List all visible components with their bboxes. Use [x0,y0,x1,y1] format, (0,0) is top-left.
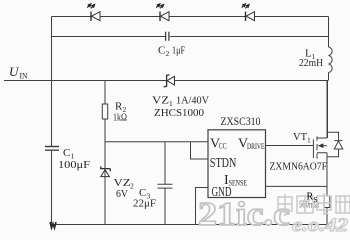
svg-text:ZXSC310: ZXSC310 [221,116,261,128]
svg-text:1kΩ: 1kΩ [113,113,127,124]
svg-text:2: 2 [166,49,170,58]
svg-text:22mH: 22mH [299,58,323,69]
svg-text:e.o.42: e.o.42 [292,215,349,234]
svg-text:1A/40V: 1A/40V [176,96,209,107]
svg-text:100μF: 100μF [58,160,90,171]
svg-text:STDN: STDN [210,156,237,171]
svg-text:C: C [158,45,165,57]
svg-text:2: 2 [130,182,134,191]
svg-text:ZXMN6AO7F: ZXMN6AO7F [270,161,328,173]
svg-text:VT: VT [293,131,307,143]
svg-text:6V: 6V [116,189,128,200]
svg-text:VZ: VZ [114,177,131,189]
svg-text:C: C [63,147,70,159]
svg-text:R: R [307,192,314,203]
svg-text:CC: CC [219,142,227,151]
svg-text:VZ: VZ [152,95,169,107]
svg-text:U: U [9,64,20,79]
svg-text:DRIVE: DRIVE [247,142,265,151]
svg-text:S: S [314,196,318,204]
svg-text:IN: IN [20,72,28,81]
svg-text:ZHCS1000: ZHCS1000 [154,108,204,119]
svg-text:1: 1 [169,99,173,108]
svg-text:C: C [139,187,146,199]
svg-text:1μF: 1μF [172,45,185,57]
svg-text:22μF: 22μF [133,199,156,210]
svg-text:21ic.c: 21ic.c [198,196,290,233]
svg-text:1: 1 [307,136,311,145]
